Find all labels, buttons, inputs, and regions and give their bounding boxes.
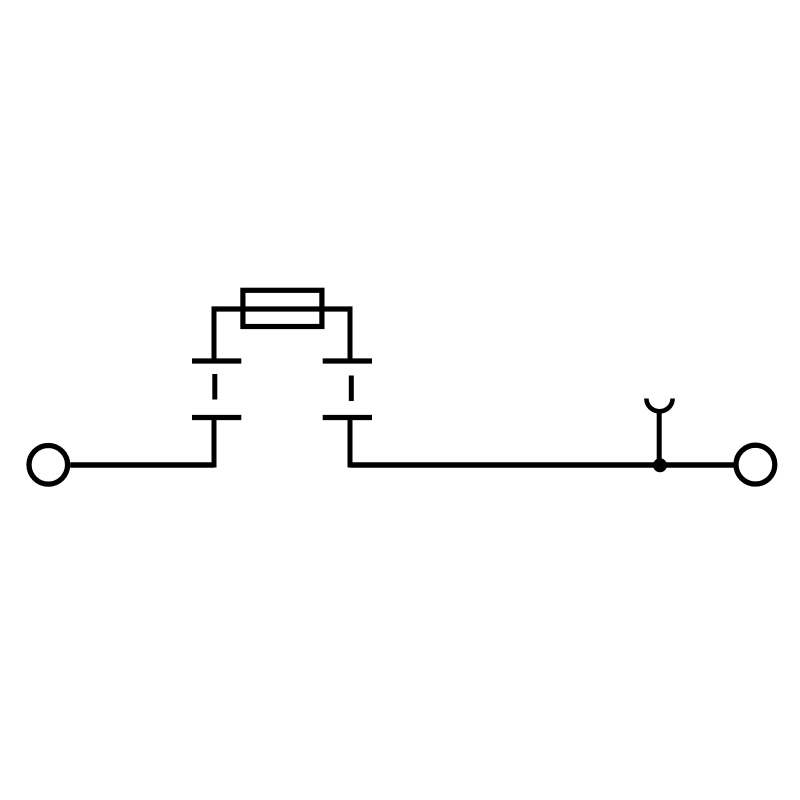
fuse link wire through body: [212, 306, 353, 311]
test socket fork: [646, 399, 672, 412]
terminal clamp left: [29, 446, 68, 485]
wire left horizontal: [70, 462, 214, 467]
disconnect dash left: [212, 374, 217, 400]
wire right riser lower: [348, 418, 353, 468]
junction node: [653, 458, 667, 472]
wire left riser upper: [212, 307, 217, 362]
terminal clamp right: [736, 445, 775, 484]
disconnect upper contact bar right: [323, 358, 372, 363]
wire right riser upper: [348, 307, 353, 362]
disconnect upper contact bar left: [192, 358, 241, 363]
disconnect lower contact bar left: [192, 415, 241, 420]
disconnect lower contact bar right: [323, 415, 372, 420]
wire test-tap stem: [657, 411, 662, 466]
fuse body: [243, 290, 322, 326]
wire left riser lower: [212, 418, 217, 468]
disconnect dash right: [349, 376, 354, 402]
wire main horizontal right: [350, 462, 734, 467]
